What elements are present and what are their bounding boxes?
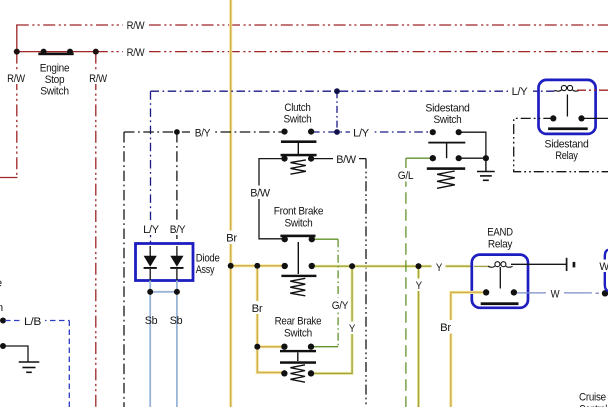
svg-text:Switch: Switch bbox=[434, 114, 462, 126]
wire Y horizontal main bbox=[312, 265, 474, 268]
label L/Y above diode bbox=[140, 222, 162, 235]
wire Sb right bbox=[176, 281, 178, 407]
svg-text:Relay: Relay bbox=[555, 150, 578, 162]
wire Sb bridge bbox=[150, 291, 177, 293]
switch Engine Stop Switch bbox=[14, 49, 99, 56]
node Br junction second bbox=[254, 263, 260, 269]
svg-text:Rear Brake: Rear Brake bbox=[275, 316, 322, 328]
wire B/W right to corner bbox=[311, 158, 366, 160]
wire Y to rear brake bottom bbox=[311, 266, 352, 373]
svg-text:B/W: B/W bbox=[336, 154, 356, 166]
node Br junction rear bbox=[254, 344, 260, 350]
wire to ground left bbox=[5, 346, 28, 362]
wire Br vertical full height bbox=[229, 0, 232, 407]
svg-text:Switch: Switch bbox=[40, 86, 69, 98]
wire Br horizontal to front brake bbox=[231, 264, 285, 267]
switch Front Brake Switch bbox=[280, 235, 316, 296]
ground left edge bbox=[19, 362, 40, 372]
ground sidestand bbox=[477, 158, 495, 180]
svg-text:Assy: Assy bbox=[196, 264, 215, 276]
wire L/Y clutch to sidestand bbox=[311, 131, 433, 133]
relay Sidestand Relay bbox=[539, 80, 596, 134]
wire R/W right vertical bbox=[95, 52, 97, 407]
label B/Y above diode bbox=[167, 222, 189, 235]
svg-text:Y: Y bbox=[436, 262, 443, 274]
wire B/Y left vertical bbox=[123, 132, 125, 407]
diode D2 right bbox=[170, 246, 183, 281]
label Rear Brake Switch bbox=[275, 316, 322, 340]
wire G/Y front to rear brake bbox=[311, 239, 338, 347]
switch Sidestand Switch bbox=[427, 129, 466, 188]
node L/B terminal bbox=[0, 318, 6, 324]
node sidestand ground junction bbox=[483, 155, 489, 161]
label Front Brake Switch bbox=[274, 206, 324, 230]
node W end dot bbox=[602, 290, 608, 296]
svg-text:L/B: L/B bbox=[24, 316, 41, 328]
diode assy box bbox=[136, 244, 194, 281]
svg-text:n: n bbox=[0, 302, 3, 314]
diode D1 left bbox=[144, 246, 157, 281]
svg-text:Engine: Engine bbox=[40, 63, 70, 75]
svg-text:Y: Y bbox=[416, 280, 423, 292]
svg-text:R/W: R/W bbox=[127, 47, 145, 59]
relay EAND Relay bbox=[472, 255, 528, 308]
svg-text:Br: Br bbox=[252, 303, 263, 315]
wire B/W dash sidestand relay left bbox=[514, 118, 608, 171]
svg-text:Sidestand: Sidestand bbox=[425, 103, 469, 115]
wire B/W dash-dot vertical bbox=[365, 159, 367, 407]
wire Br branch to rear brake top bbox=[257, 345, 284, 348]
label EAND Relay bbox=[487, 227, 513, 251]
wire R/W from sidestand relay coil bbox=[577, 89, 608, 91]
svg-text:Br: Br bbox=[440, 322, 451, 334]
svg-text:Diode: Diode bbox=[196, 253, 220, 265]
wire R/W top horizontal bbox=[17, 24, 608, 26]
svg-text:W: W bbox=[551, 289, 560, 301]
svg-text:Sidestand: Sidestand bbox=[545, 139, 589, 151]
node Br junction on vertical bbox=[228, 263, 234, 269]
switch Rear Brake Switch bbox=[280, 344, 316, 383]
label Sidestand Switch bbox=[425, 103, 469, 127]
wire Sb left bbox=[149, 281, 151, 407]
label Br upper bbox=[223, 231, 239, 245]
svg-text:Clutch: Clutch bbox=[284, 102, 310, 114]
wire L/B bbox=[5, 321, 69, 407]
svg-text:R/W: R/W bbox=[127, 20, 145, 32]
label Cruise Control bbox=[579, 392, 607, 407]
wire G/L bbox=[406, 158, 433, 407]
svg-text:L/Y: L/Y bbox=[143, 224, 160, 236]
wire B/W left solid bbox=[259, 159, 285, 239]
svg-text:Switch: Switch bbox=[284, 114, 312, 126]
node B/Y junction bbox=[174, 129, 180, 135]
wire L/Y main horizontal bbox=[151, 91, 556, 243]
relay box sliver right edge bbox=[605, 250, 608, 291]
wire B/Y horizontal bbox=[124, 131, 285, 133]
svg-text:EAND: EAND bbox=[487, 227, 513, 239]
label Clutch Switch bbox=[284, 102, 312, 126]
label Diode Assy bbox=[196, 253, 220, 277]
label Sidestand Relay bbox=[545, 139, 589, 163]
battery symbol bbox=[567, 258, 576, 271]
wire to battery symbol bbox=[511, 263, 567, 265]
svg-text:G/Y: G/Y bbox=[332, 300, 349, 312]
wire W from EAND relay bbox=[514, 292, 599, 294]
label Engine Stop Switch bbox=[40, 63, 70, 98]
svg-text:Sb: Sb bbox=[145, 315, 158, 327]
wire R/W second horizontal bbox=[17, 51, 608, 53]
svg-text:B/Y: B/Y bbox=[170, 224, 186, 236]
svg-text:B/W: B/W bbox=[250, 188, 270, 200]
wire Br vertical to rear brake bbox=[257, 266, 284, 373]
svg-text:G/L: G/L bbox=[398, 170, 414, 182]
svg-text:Y: Y bbox=[349, 323, 356, 335]
node Sb left bbox=[147, 289, 153, 295]
node Sb right bbox=[174, 289, 180, 295]
svg-text:L/Y: L/Y bbox=[512, 86, 529, 98]
svg-text:B/Y: B/Y bbox=[195, 128, 211, 140]
svg-text:Cruise: Cruise bbox=[579, 392, 606, 404]
node L/Y junction upper bbox=[334, 88, 340, 94]
svg-text:L/Y: L/Y bbox=[353, 128, 370, 140]
node Y junction right bbox=[416, 263, 422, 269]
wire R/W left vertical bbox=[0, 24, 17, 177]
node ground terminal left bbox=[0, 343, 6, 349]
switch Clutch Switch bbox=[281, 129, 317, 175]
wire B/Y diode branch vertical bbox=[176, 132, 178, 244]
wire sidestand relay right solid bbox=[582, 117, 608, 119]
svg-text:Switch: Switch bbox=[285, 218, 313, 230]
svg-text:Front Brake: Front Brake bbox=[274, 206, 324, 218]
wire Y vertical from junction down bbox=[417, 266, 420, 407]
svg-text:Relay: Relay bbox=[488, 239, 513, 251]
svg-text:R/W: R/W bbox=[7, 73, 25, 85]
svg-text:Switch: Switch bbox=[284, 328, 312, 340]
svg-text:W: W bbox=[599, 261, 608, 273]
node restamp junction dots bbox=[147, 155, 517, 376]
wire sidestand right black bbox=[459, 132, 486, 158]
svg-text:Control: Control bbox=[579, 404, 607, 407]
node Y junction left bbox=[349, 263, 355, 269]
svg-text:R/W: R/W bbox=[89, 73, 107, 85]
svg-text:Stop: Stop bbox=[45, 74, 65, 86]
svg-text:Br: Br bbox=[226, 233, 237, 245]
wire Br to EAND relay bbox=[451, 292, 486, 407]
svg-text:e: e bbox=[0, 278, 2, 290]
svg-text:Sb: Sb bbox=[170, 315, 183, 327]
node L/Y junction lower bbox=[334, 129, 340, 135]
